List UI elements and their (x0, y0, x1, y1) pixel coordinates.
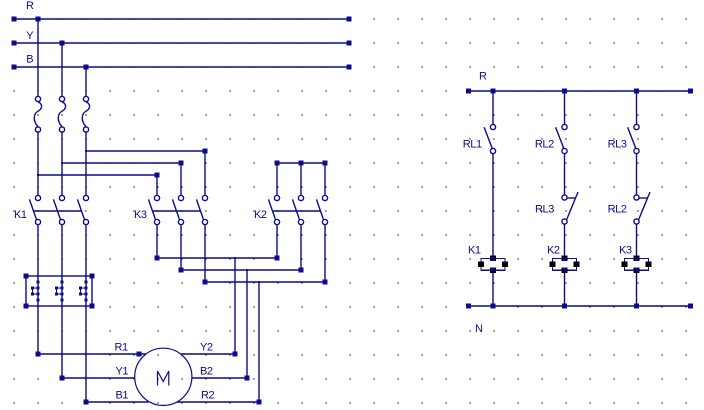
svg-text:RL2: RL2 (535, 139, 554, 151)
svg-text:Y2: Y2 (200, 342, 213, 354)
svg-text:Y1: Y1 (116, 366, 129, 378)
svg-text:K3: K3 (134, 209, 147, 221)
svg-text:RL1: RL1 (463, 139, 482, 151)
svg-text:R2: R2 (201, 390, 215, 402)
svg-text:RL3: RL3 (608, 139, 627, 151)
svg-text:N: N (475, 323, 483, 335)
svg-text:B1: B1 (116, 390, 129, 402)
svg-text:K3: K3 (619, 245, 632, 257)
svg-text:R: R (26, 0, 34, 12)
svg-text:RL2: RL2 (608, 204, 627, 216)
svg-text:K2: K2 (254, 209, 267, 221)
svg-text:RL3: RL3 (535, 204, 554, 216)
svg-text:Y: Y (26, 30, 34, 42)
svg-text:R1: R1 (115, 342, 129, 354)
svg-text:K1: K1 (468, 245, 481, 257)
svg-text:K1: K1 (14, 209, 27, 221)
svg-text:B: B (26, 54, 33, 66)
svg-text:B2: B2 (200, 366, 213, 378)
svg-text:K2: K2 (547, 245, 560, 257)
svg-text:R: R (479, 71, 487, 83)
